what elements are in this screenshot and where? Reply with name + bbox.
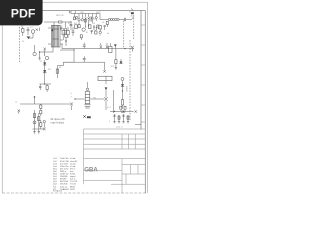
dashed net line A — [133, 15, 135, 40]
parts list — [53, 157, 78, 192]
svg-text:TDA4605: TDA4605 — [60, 188, 70, 191]
PDF badge — [0, 0, 43, 25]
transistor Q802 — [44, 48, 46, 56]
resistor R802 — [88, 25, 91, 29]
capacitor C811 — [83, 43, 86, 49]
title block cells — [122, 134, 138, 193]
svg-text:R8: R8 — [59, 67, 61, 69]
wire — [86, 20, 89, 27]
extra labels — [75, 19, 104, 34]
transistor Q801 — [85, 18, 90, 20]
connector box J801 — [98, 76, 112, 80]
wire vertical diode chain — [44, 60, 46, 84]
tiny labels mid — [40, 61, 61, 71]
transistor Q804 — [106, 43, 108, 48]
svg-text:r7: r7 — [71, 96, 73, 99]
main bus wire 2 — [63, 61, 104, 63]
ground array — [33, 132, 40, 134]
svg-text:1N4007: 1N4007 — [125, 86, 127, 92]
zener D810 — [119, 59, 122, 64]
secondary chain: rectifier D811 — [121, 78, 124, 81]
diode D807 — [43, 70, 47, 72]
resistor R810 — [115, 49, 117, 68]
cluster under badge: resistor R803 — [22, 27, 24, 36]
schematic frame right inner — [140, 11, 142, 130]
resistor R812 — [121, 100, 123, 105]
filler marks top cluster — [76, 16, 92, 22]
wire — [119, 19, 124, 21]
vertical branch pair left — [33, 110, 46, 132]
svg-text:GBA: GBA — [84, 166, 98, 173]
transformer feed stub — [53, 22, 55, 25]
specks — [107, 106, 111, 122]
wire top left stub — [69, 11, 71, 14]
junction wire bottom left — [33, 128, 45, 130]
switch S802 — [83, 115, 91, 119]
capacitor C812 — [83, 56, 86, 62]
svg-text:D3: D3 — [22, 41, 24, 43]
wire — [65, 22, 67, 28]
small node below badge corner — [36, 28, 40, 32]
diode D803 — [27, 37, 31, 39]
ground — [38, 58, 40, 60]
node — [124, 48, 125, 49]
tiny labels top — [63, 12, 99, 35]
horizontal feedback wire — [20, 103, 70, 105]
svg-text:C05: C05 — [92, 23, 95, 25]
cluster bottom — [120, 105, 126, 112]
bridge rectifier D801 — [82, 28, 85, 31]
svg-text:IC1: IC1 — [30, 27, 33, 29]
extra top cluster parts — [66, 11, 106, 40]
circle symbol plug — [64, 34, 67, 37]
svg-text:SW2: SW2 — [87, 117, 91, 119]
diode D805 — [45, 56, 48, 59]
svg-text:BUT11A: BUT11A — [60, 180, 68, 183]
svg-text:el rad: el rad — [70, 157, 76, 160]
output bus wire — [110, 111, 134, 112]
capacitor C810 — [39, 84, 41, 90]
svg-text:D5: D5 — [40, 61, 42, 63]
tiny labels — [21, 26, 33, 43]
capacitor C808 — [27, 27, 30, 35]
svg-text:C8: C8 — [102, 22, 104, 24]
wire right — [90, 98, 104, 100]
node junction — [70, 21, 71, 22]
stub marks — [71, 93, 73, 99]
switch SW801 — [131, 8, 134, 19]
inductor L802 coil — [108, 18, 119, 20]
diode D812 — [121, 84, 124, 86]
resistor R801 — [75, 25, 78, 29]
wire horizontal — [60, 49, 75, 51]
page border bottom — [2, 192, 147, 194]
more labels — [68, 19, 109, 37]
svg-text:1c: 1c — [71, 93, 73, 95]
title block rows left section — [84, 170, 123, 180]
schematic frame top — [2, 10, 145, 12]
diode D809 — [114, 45, 116, 49]
transistor Q805 — [131, 46, 134, 51]
svg-text:R15: R15 — [111, 66, 114, 68]
wire vertical — [113, 90, 115, 113]
wire — [65, 31, 67, 34]
svg-text:T5: T5 — [99, 35, 101, 37]
wire from transformer down — [47, 47, 53, 52]
svg-text:R01: R01 — [74, 23, 77, 25]
zener D804 — [33, 52, 36, 55]
svg-text:B2: B2 — [86, 32, 88, 34]
title block rows right section — [111, 165, 145, 185]
transistor Q803 — [100, 43, 102, 48]
junction wire — [40, 84, 52, 85]
svg-text:R12: R12 — [48, 69, 51, 71]
wire link — [73, 49, 75, 63]
page border left — [1, 2, 3, 193]
node dots — [85, 27, 86, 28]
svg-text:d4: d4 — [107, 33, 109, 35]
svg-text:a2 b1 c3: a2 b1 c3 — [116, 127, 123, 129]
wire vertical drop — [70, 22, 72, 30]
wire — [122, 81, 123, 100]
transformer T801 core box — [51, 25, 60, 47]
svg-text:x2: x2 — [15, 102, 17, 104]
capacitor C801 — [70, 25, 73, 26]
resistor R809 — [46, 84, 48, 92]
frame zone ticks — [40, 11, 145, 122]
arrow symbol — [18, 110, 20, 114]
title block rows full width — [84, 129, 146, 184]
transformer T802 — [84, 82, 90, 108]
svg-text:el rad: el rad — [70, 165, 76, 168]
svg-text:fast rc: fast rc — [70, 178, 76, 181]
wire — [34, 45, 36, 52]
lamp symbol — [64, 28, 67, 31]
svg-text:F801 T2A: F801 T2A — [56, 14, 64, 17]
junction cluster — [39, 52, 47, 59]
wire — [28, 33, 33, 38]
wire to coil — [100, 14, 108, 20]
output stage row — [113, 114, 129, 122]
annotation text — [51, 117, 65, 125]
page border top — [2, 1, 147, 3]
svg-text:R9: R9 — [21, 26, 23, 28]
resistor chain R814 — [40, 104, 42, 116]
wire stub — [70, 11, 72, 14]
transistor Q806 — [104, 88, 107, 110]
resistor R807 — [67, 27, 69, 38]
dashed net line B — [123, 21, 125, 49]
resistor R806 — [62, 28, 64, 40]
extra dense parts top — [60, 14, 109, 35]
svg-text:trafo sw: trafo sw — [60, 185, 68, 188]
wire AC input run — [44, 21, 58, 23]
ground — [115, 68, 117, 70]
plus node — [135, 110, 137, 112]
node dot — [34, 96, 35, 104]
IC802 cluster — [109, 43, 112, 52]
varistor symbol 2 — [81, 19, 83, 21]
svg-text:trim: trim — [70, 170, 74, 173]
capacitor C809 — [72, 27, 75, 36]
wire left stub — [75, 99, 85, 100]
wire drops — [79, 14, 89, 19]
top bus wire — [71, 13, 100, 15]
dashed secondary separator — [129, 40, 131, 120]
tiny labels above title block — [116, 127, 123, 129]
svg-text:T82: T82 — [93, 98, 96, 100]
wire — [126, 19, 132, 21]
dashed primary box line — [19, 27, 21, 63]
schematic frame right outer — [144, 11, 146, 193]
svg-text:q7 r2: q7 r2 — [107, 106, 111, 109]
svg-text:V2: V2 — [93, 19, 95, 21]
svg-text:D81: D81 — [96, 12, 99, 14]
wire to frame — [135, 123, 141, 125]
capacitor C806 — [124, 18, 125, 21]
svg-text:snje feslqd: snje feslqd — [51, 121, 65, 125]
svg-text:L801: L801 — [80, 12, 84, 14]
diode D806 — [43, 63, 47, 65]
resistor R808 — [56, 69, 58, 73]
wire staircase to bus — [57, 62, 74, 78]
fuse F1 — [56, 14, 64, 23]
ground row — [113, 122, 129, 123]
transistor Q808 — [43, 128, 46, 131]
svg-text:PDF: PDF — [11, 6, 36, 20]
page border right — [146, 2, 148, 193]
transistor Q807 — [70, 102, 73, 110]
svg-text:g: g — [109, 120, 110, 122]
wire branch — [105, 76, 107, 84]
svg-text:F2: F2 — [68, 23, 70, 25]
resistor R816 — [40, 120, 42, 129]
cluster caps right — [93, 25, 101, 30]
transformer primary stubs — [48, 28, 63, 44]
wire — [62, 21, 71, 23]
svg-text:ceram: ceram — [70, 162, 76, 165]
main bus wire 1 — [62, 48, 134, 50]
corner down X — [103, 62, 105, 72]
varistor symbol — [78, 19, 80, 21]
photocoupler IC801 — [31, 30, 35, 34]
